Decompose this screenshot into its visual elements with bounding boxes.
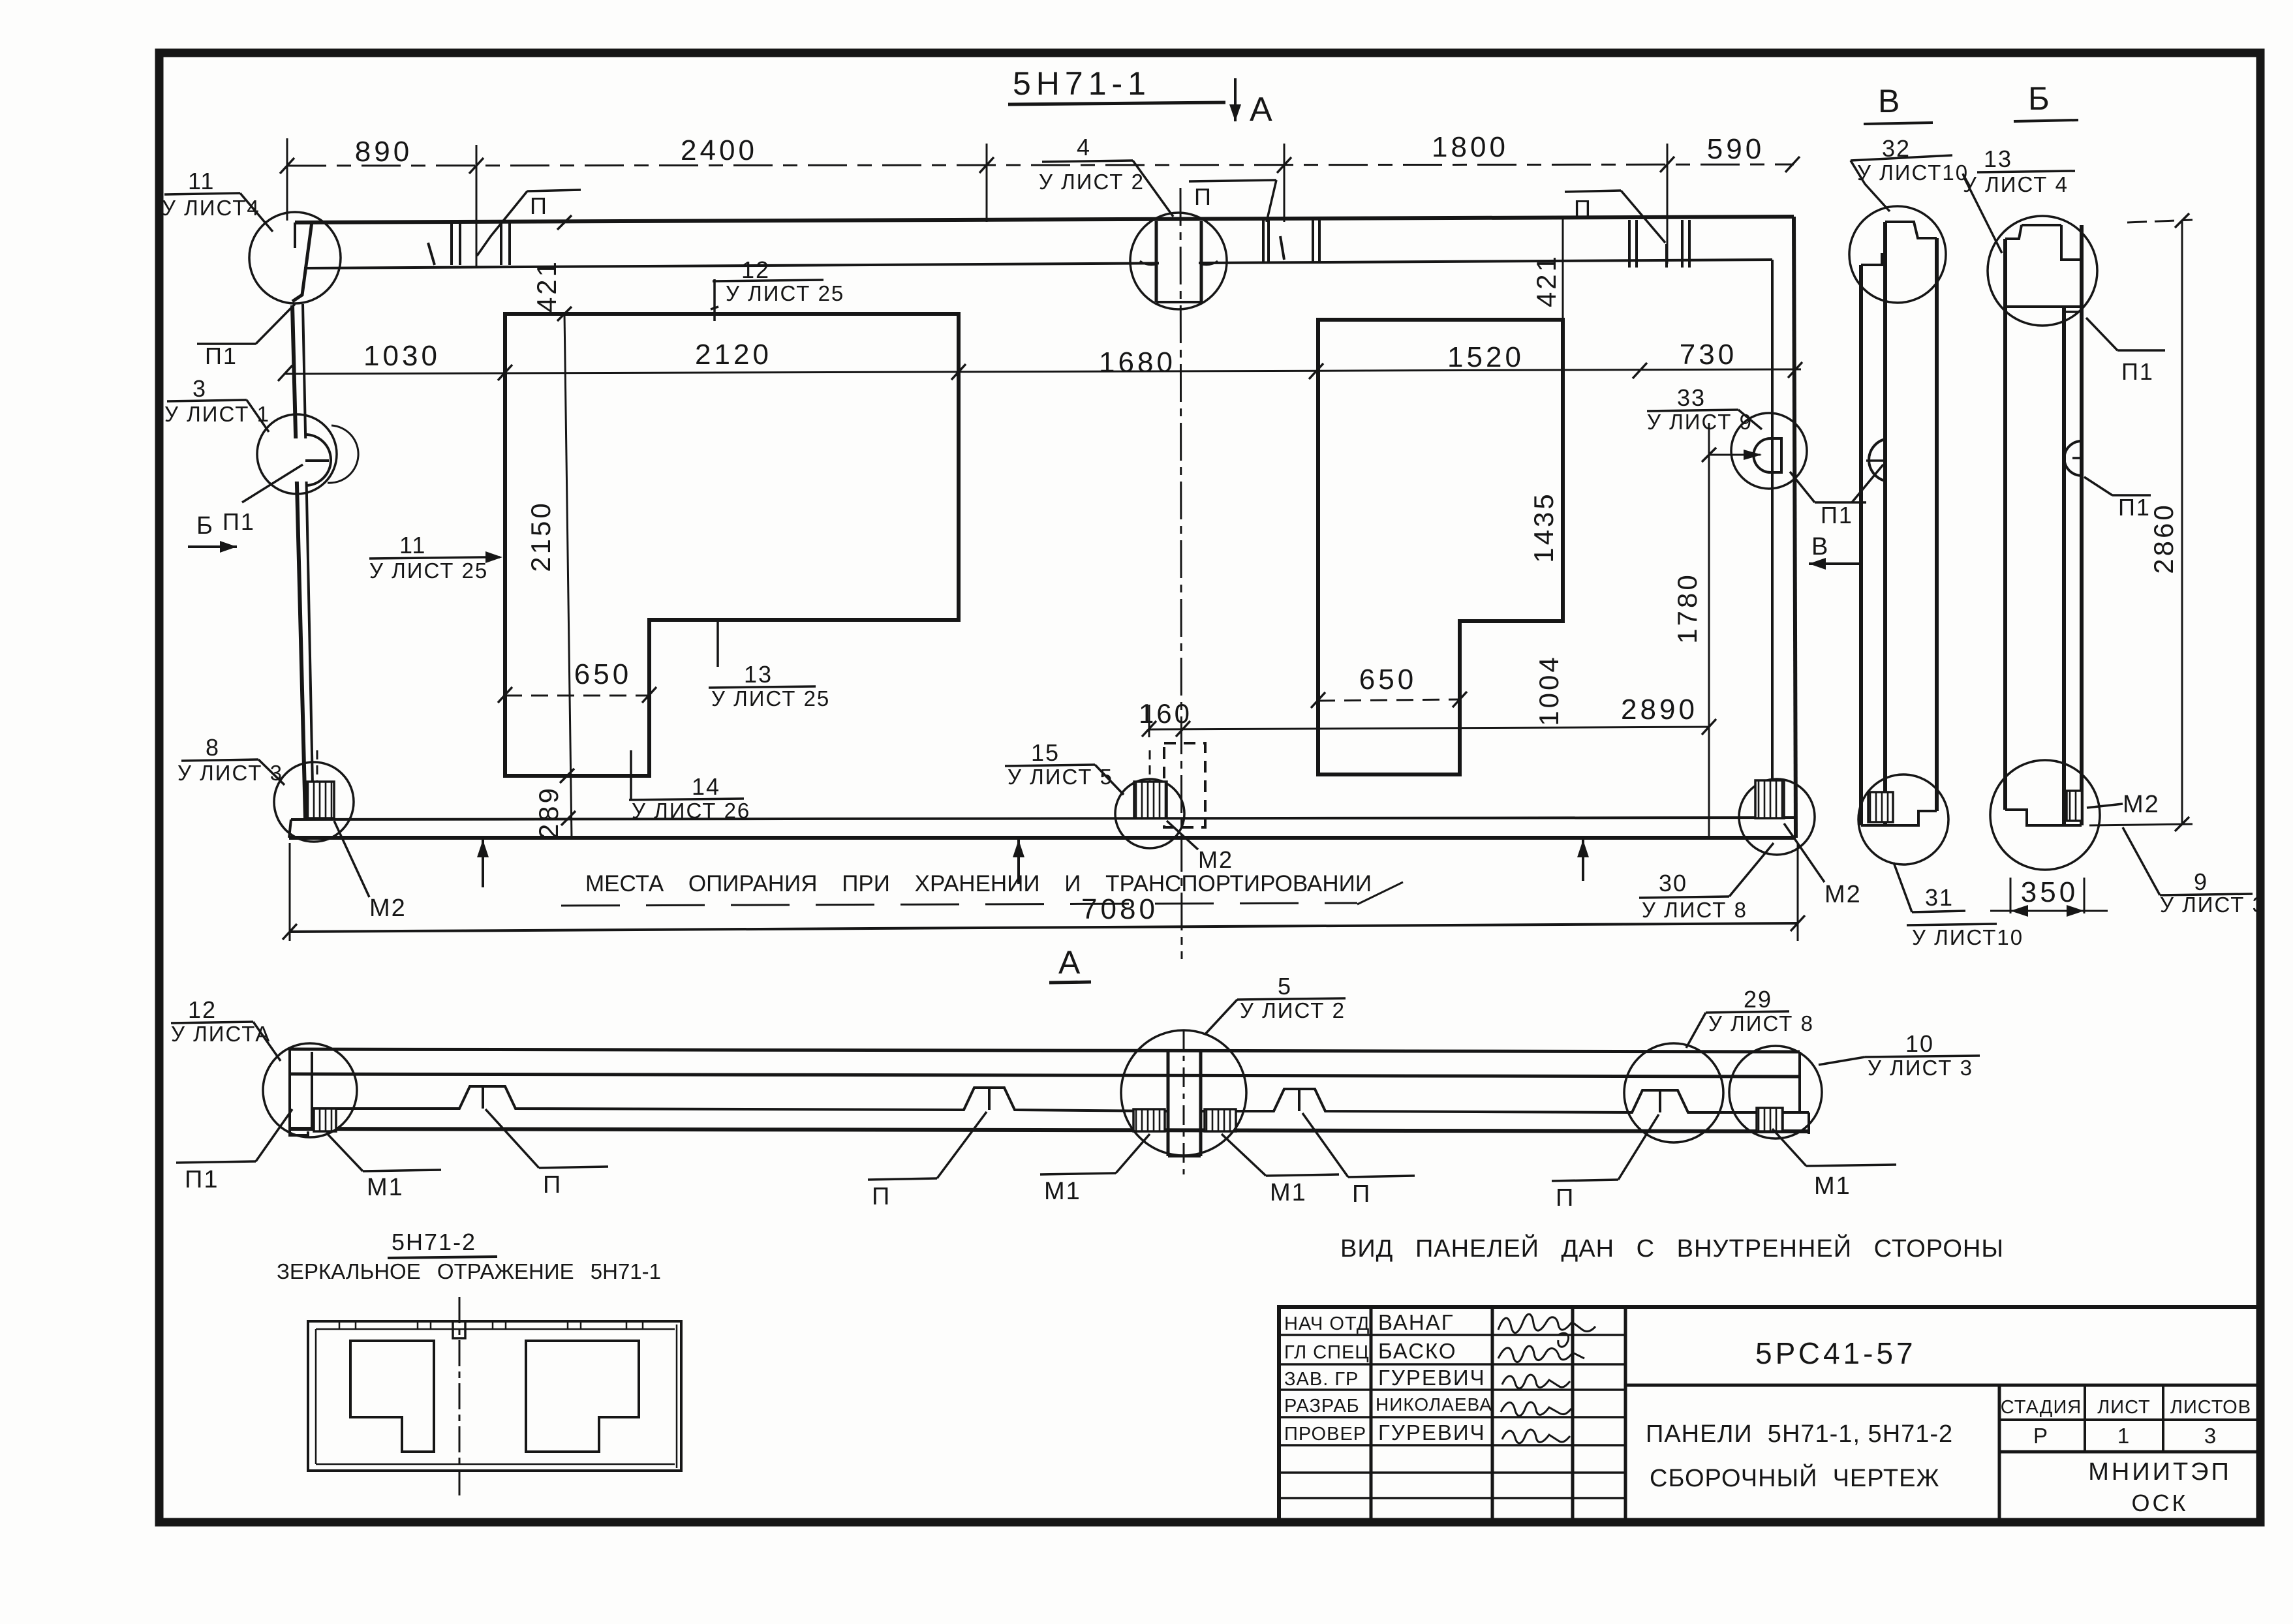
svg-text:8: 8 <box>206 734 220 761</box>
svg-text:5РС41-57: 5РС41-57 <box>1755 1336 1916 1370</box>
svg-text:ПАНЕЛИ 5Н71-1, 5Н71-2: ПАНЕЛИ 5Н71-1, 5Н71-2 <box>1646 1420 1953 1448</box>
svg-text:1030: 1030 <box>363 340 440 372</box>
svg-text:421: 421 <box>531 259 562 313</box>
svg-text:ЛИСТ: ЛИСТ <box>2097 1397 2151 1418</box>
svg-text:РАЗРАБ: РАЗРАБ <box>1284 1396 1360 1417</box>
svg-text:730: 730 <box>1680 339 1737 371</box>
svg-text:ЛИСТОВ: ЛИСТОВ <box>2170 1397 2251 1418</box>
svg-text:М1: М1 <box>367 1174 404 1201</box>
svg-text:У ЛИСТ 25: У ЛИСТ 25 <box>711 686 830 711</box>
svg-text:МЕСТА ОПИРАНИЯ ПРИ ХРАНЕНИИ И: МЕСТА ОПИРАНИЯ ПРИ ХРАНЕНИИ И ТРАНСПОРТИ… <box>585 871 1372 896</box>
svg-text:У ЛИСТ10: У ЛИСТ10 <box>1857 161 1969 185</box>
svg-text:ПРОВЕР: ПРОВЕР <box>1284 1424 1366 1445</box>
svg-text:П1: П1 <box>2121 358 2154 385</box>
svg-text:ГЛ СПЕЦ: ГЛ СПЕЦ <box>1284 1342 1370 1363</box>
svg-text:М2: М2 <box>1824 881 1862 908</box>
svg-text:2890: 2890 <box>1621 694 1698 726</box>
svg-text:ЗЕРКАЛЬНОЕ ОТРАЖЕНИЕ 5Н71-1: ЗЕРКАЛЬНОЕ ОТРАЖЕНИЕ 5Н71-1 <box>277 1259 661 1283</box>
svg-text:НИКОЛАЕВА: НИКОЛАЕВА <box>1376 1394 1492 1415</box>
svg-text:У ЛИСТ 9: У ЛИСТ 9 <box>1647 410 1753 434</box>
svg-text:15: 15 <box>1031 739 1060 766</box>
svg-text:2120: 2120 <box>695 339 772 371</box>
svg-text:У ЛИСТ 25: У ЛИСТ 25 <box>369 559 488 583</box>
svg-text:М1: М1 <box>1814 1172 1851 1200</box>
svg-text:У ЛИСТ 8: У ЛИСТ 8 <box>1642 898 1747 922</box>
svg-text:11: 11 <box>399 532 426 559</box>
svg-text:П: П <box>1574 195 1592 222</box>
svg-text:М2: М2 <box>369 895 407 922</box>
svg-text:5Н71-2: 5Н71-2 <box>392 1229 476 1255</box>
svg-text:У ЛИСТ 25: У ЛИСТ 25 <box>726 281 844 305</box>
svg-text:МНИИТЭП: МНИИТЭП <box>2088 1458 2232 1486</box>
svg-text:13: 13 <box>744 661 773 688</box>
svg-text:1435: 1435 <box>1528 491 1559 562</box>
svg-text:П: П <box>530 192 548 219</box>
svg-text:Б: Б <box>2028 80 2055 117</box>
svg-text:НАЧ ОТД: НАЧ ОТД <box>1284 1313 1370 1334</box>
svg-text:ВАНАГ: ВАНАГ <box>1378 1310 1454 1334</box>
svg-text:33: 33 <box>1677 384 1706 411</box>
svg-text:31: 31 <box>1925 884 1954 911</box>
svg-text:М1: М1 <box>1044 1178 1081 1205</box>
svg-text:10: 10 <box>1905 1030 1934 1057</box>
svg-text:П1: П1 <box>223 508 255 535</box>
svg-text:В: В <box>1878 83 1905 119</box>
svg-text:П: П <box>1194 183 1212 210</box>
svg-text:1: 1 <box>2117 1424 2131 1448</box>
svg-text:14: 14 <box>692 773 720 800</box>
svg-text:П1: П1 <box>1821 502 1853 529</box>
svg-text:СТАДИЯ: СТАДИЯ <box>2001 1397 2082 1418</box>
svg-text:2150: 2150 <box>525 500 556 572</box>
svg-text:П1: П1 <box>185 1166 219 1193</box>
svg-text:У ЛИСТ 8: У ЛИСТ 8 <box>1708 1011 1814 1035</box>
svg-text:12: 12 <box>188 996 217 1023</box>
svg-text:У ЛИСТ 3: У ЛИСТ 3 <box>177 761 283 785</box>
svg-text:4: 4 <box>1077 134 1091 161</box>
svg-text:А: А <box>1250 91 1272 129</box>
svg-text:1004: 1004 <box>1533 654 1564 726</box>
svg-text:1520: 1520 <box>1447 341 1524 373</box>
svg-text:СБОРОЧНЫЙ ЧЕРТЕЖ: СБОРОЧНЫЙ ЧЕРТЕЖ <box>1650 1463 1940 1492</box>
svg-text:5Н71-1: 5Н71-1 <box>1013 65 1151 102</box>
svg-text:1800: 1800 <box>1432 131 1509 163</box>
svg-text:29: 29 <box>1744 986 1772 1013</box>
svg-text:890: 890 <box>355 136 412 168</box>
svg-text:П1: П1 <box>205 343 238 369</box>
svg-text:7080: 7080 <box>1081 893 1158 925</box>
svg-text:М2: М2 <box>2123 791 2160 818</box>
svg-text:12: 12 <box>741 256 770 283</box>
svg-text:2860: 2860 <box>2148 502 2179 574</box>
svg-text:3: 3 <box>192 375 207 402</box>
svg-text:А: А <box>1058 944 1085 981</box>
svg-text:ОСК: ОСК <box>2132 1490 2189 1516</box>
svg-text:30: 30 <box>1659 870 1687 896</box>
svg-text:13: 13 <box>1984 146 2012 172</box>
svg-text:М2: М2 <box>1198 846 1233 873</box>
svg-text:11: 11 <box>188 168 215 194</box>
svg-text:421: 421 <box>1531 254 1562 307</box>
svg-text:ГУРЕВИЧ: ГУРЕВИЧ <box>1378 1420 1486 1445</box>
svg-text:590: 590 <box>1707 133 1764 165</box>
svg-text:П: П <box>1556 1184 1575 1212</box>
svg-text:У ЛИСТ 26: У ЛИСТ 26 <box>632 799 750 823</box>
svg-text:1680: 1680 <box>1099 346 1176 378</box>
svg-text:У ЛИСТ 3: У ЛИСТ 3 <box>2160 893 2266 917</box>
svg-text:Р: Р <box>2033 1424 2049 1448</box>
svg-text:У ЛИСТ 1: У ЛИСТ 1 <box>164 402 270 426</box>
svg-text:9: 9 <box>2194 868 2208 895</box>
svg-text:1780: 1780 <box>1672 572 1702 643</box>
svg-text:ГУРЕВИЧ: ГУРЕВИЧ <box>1378 1366 1486 1390</box>
svg-text:У ЛИСТ 4: У ЛИСТ 4 <box>1963 172 2069 196</box>
svg-text:5: 5 <box>1278 973 1292 1000</box>
svg-text:М1: М1 <box>1270 1179 1307 1206</box>
svg-text:160: 160 <box>1139 698 1192 729</box>
svg-text:П: П <box>872 1183 891 1210</box>
svg-text:289: 289 <box>533 786 564 839</box>
svg-text:3: 3 <box>2204 1424 2217 1448</box>
svg-text:2400: 2400 <box>681 134 758 166</box>
svg-text:У ЛИСТ 2: У ЛИСТ 2 <box>1240 998 1346 1022</box>
svg-text:П: П <box>1352 1180 1371 1208</box>
svg-text:650: 650 <box>574 658 632 690</box>
svg-text:В: В <box>1811 533 1829 560</box>
svg-text:БАСКО: БАСКО <box>1378 1339 1457 1363</box>
svg-text:Б: Б <box>196 512 214 540</box>
svg-text:П1: П1 <box>2118 494 2151 521</box>
svg-text:П: П <box>543 1171 562 1199</box>
svg-text:650: 650 <box>1359 664 1417 696</box>
svg-text:У ЛИСТ10: У ЛИСТ10 <box>1912 925 2024 949</box>
svg-text:У ЛИСТ 3: У ЛИСТ 3 <box>1868 1056 1973 1080</box>
svg-text:ВИД ПАНЕЛЕЙ ДАН С ВНУТРЕННЕЙ С: ВИД ПАНЕЛЕЙ ДАН С ВНУТРЕННЕЙ СТОРОНЫ <box>1340 1233 2004 1263</box>
svg-text:У ЛИСТ 2: У ЛИСТ 2 <box>1039 170 1145 194</box>
svg-text:ЗАВ. ГР: ЗАВ. ГР <box>1284 1369 1359 1390</box>
svg-text:350: 350 <box>2021 876 2078 908</box>
